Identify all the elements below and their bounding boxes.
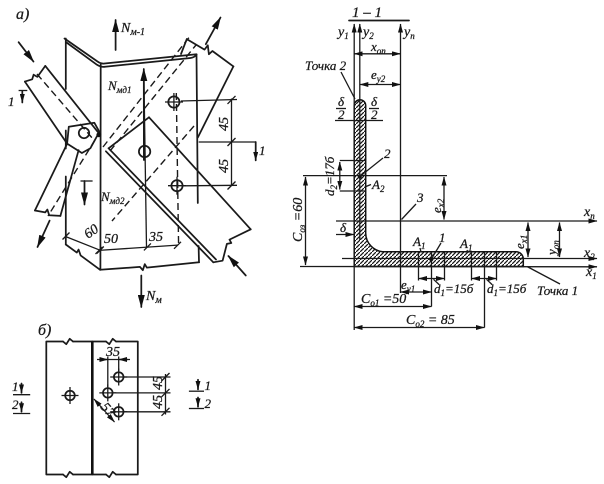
svg-text:Cо1 =50: Cо1 =50 [361, 292, 406, 308]
svg-text:45: 45 [151, 376, 166, 390]
bolt hole upper (crosshair) [165, 93, 183, 111]
svg-text:45: 45 [151, 395, 166, 409]
svg-text:Cо2 = 85: Cо2 = 85 [406, 313, 455, 329]
section marker 1 (right) [199, 142, 266, 160]
point 1 dot and leader [429, 230, 445, 261]
force arrow Nmd1 with extension line [107, 69, 147, 247]
hole right bottom [110, 403, 127, 420]
section marker 1 left (plan) [12, 379, 30, 395]
svg-text:Точка 2: Точка 2 [305, 58, 347, 73]
element ticks A1 first group [419, 252, 445, 307]
d2 force arrow lower-right end [228, 256, 245, 276]
d1 hidden edges (dashed) behind chord face [103, 38, 196, 222]
svg-text:1 – 1: 1 – 1 [352, 5, 382, 21]
svg-text:Cоз =60: Cоз =60 [291, 198, 307, 242]
label Tochka 2 with leader [305, 58, 355, 99]
point 2 dot and leader [358, 146, 391, 179]
right plate [92, 339, 138, 477]
chord angle member (vertical) outline [65, 39, 200, 271]
dimension 35 (plan) [97, 345, 130, 387]
dimension x_op [354, 39, 400, 56]
dimension 45 45 (plan) [113, 373, 171, 416]
hole left plate [62, 387, 79, 404]
extension line at point-2 level [303, 175, 447, 177]
title 1 - 1 [349, 5, 409, 21]
label Tochka 1 with leader [527, 267, 578, 299]
dimension d2=17b (rotated) [322, 156, 366, 196]
label delta (thickness pointer) [336, 220, 354, 235]
axis x1 (bottom face extended) [300, 265, 597, 281]
svg-text:Точка 1: Точка 1 [537, 283, 578, 298]
dimension e_y2 [360, 67, 401, 85]
label A1 first with leader [412, 234, 425, 252]
force arrow Nmd2 [81, 181, 125, 206]
left plate [46, 339, 92, 477]
axis y2 [360, 24, 374, 240]
section marker 1 right (plan) [189, 378, 211, 393]
dimension e_x1 [512, 223, 529, 258]
diagonal member d2 middle band [106, 117, 251, 262]
label b) [38, 322, 51, 339]
label A1 second with leader [459, 236, 472, 253]
svg-text:50: 50 [104, 232, 118, 247]
dimension e_y1 [401, 277, 432, 294]
svg-text:d1=15б: d1=15б [487, 281, 527, 298]
dimension C_o1 = 50 [354, 292, 431, 308]
svg-text:1: 1 [12, 379, 19, 394]
section marker 1 (left) [8, 91, 27, 110]
d1 force arrow lower end [38, 221, 50, 247]
svg-text:45: 45 [217, 117, 232, 131]
dimension C_o2 = 85 [354, 313, 484, 329]
svg-text:3: 3 [416, 190, 424, 205]
svg-text:45: 45 [217, 159, 232, 173]
label 3 with leader to axes origin [402, 190, 425, 220]
svg-text:2: 2 [205, 396, 212, 411]
open hole in d2 band [139, 146, 150, 157]
svg-text:б): б) [38, 322, 51, 339]
element ticks A1 second group [472, 252, 497, 328]
svg-text:1: 1 [8, 94, 15, 109]
connection point dot [96, 132, 101, 137]
svg-text:35: 35 [148, 230, 163, 245]
d1 force arrow upper end [206, 18, 221, 45]
dimension 57 (diagonal) [94, 399, 118, 422]
dimension 50 / 35 (iso) [96, 230, 182, 254]
diagonal member d2 upper-left part [25, 66, 98, 144]
section marker 2 right (plan) [189, 396, 212, 411]
hole right middle [99, 384, 116, 401]
svg-text:1: 1 [259, 143, 266, 158]
d2 force arrow upper end [19, 42, 34, 61]
dimension 45-45 (iso view) [181, 96, 237, 190]
axis xn [336, 205, 597, 221]
label A2 with leader [366, 177, 385, 194]
bolt gauge dashed line on face [176, 93, 178, 246]
d1 axis dashed lower [48, 140, 95, 216]
dimension C_o3 = 60 (rotated) [291, 177, 307, 265]
dimension y_op [544, 223, 561, 258]
label a) [16, 6, 29, 23]
delta/2 fractions at tip [335, 94, 383, 122]
svg-text:а): а) [16, 6, 29, 23]
d1 lower-left part [35, 144, 79, 216]
svg-text:d1=15б: d1=15б [434, 281, 474, 298]
section marker 2 left (plan) [12, 397, 30, 414]
svg-text:2: 2 [371, 107, 378, 122]
diagonal member d1 upper-right part [181, 39, 233, 137]
angle profile hatched [354, 100, 523, 267]
svg-text:2: 2 [338, 107, 345, 122]
gusset plate at connection [67, 123, 99, 153]
d2 axis dashed upper [37, 74, 93, 139]
axis yn [401, 24, 416, 293]
dimension d1=15b first [419, 279, 474, 299]
svg-text:2: 2 [12, 397, 19, 412]
svg-text:35: 35 [105, 345, 120, 360]
svg-text:2: 2 [384, 146, 391, 161]
bolt hole lower (crosshair) [168, 177, 186, 195]
force arrow Nm-1 [116, 20, 145, 50]
svg-text:1: 1 [439, 230, 446, 245]
axis y1 [336, 24, 354, 330]
force arrow Nm (bottom) [141, 276, 162, 308]
svg-text:δ: δ [340, 220, 347, 235]
hole right top [110, 369, 127, 386]
dimension 60 (iso) [63, 222, 104, 254]
dimension d1=15b second [472, 279, 527, 299]
dimension e_x2 [429, 177, 446, 220]
axis x2 [342, 246, 597, 262]
svg-text:1: 1 [205, 378, 212, 393]
